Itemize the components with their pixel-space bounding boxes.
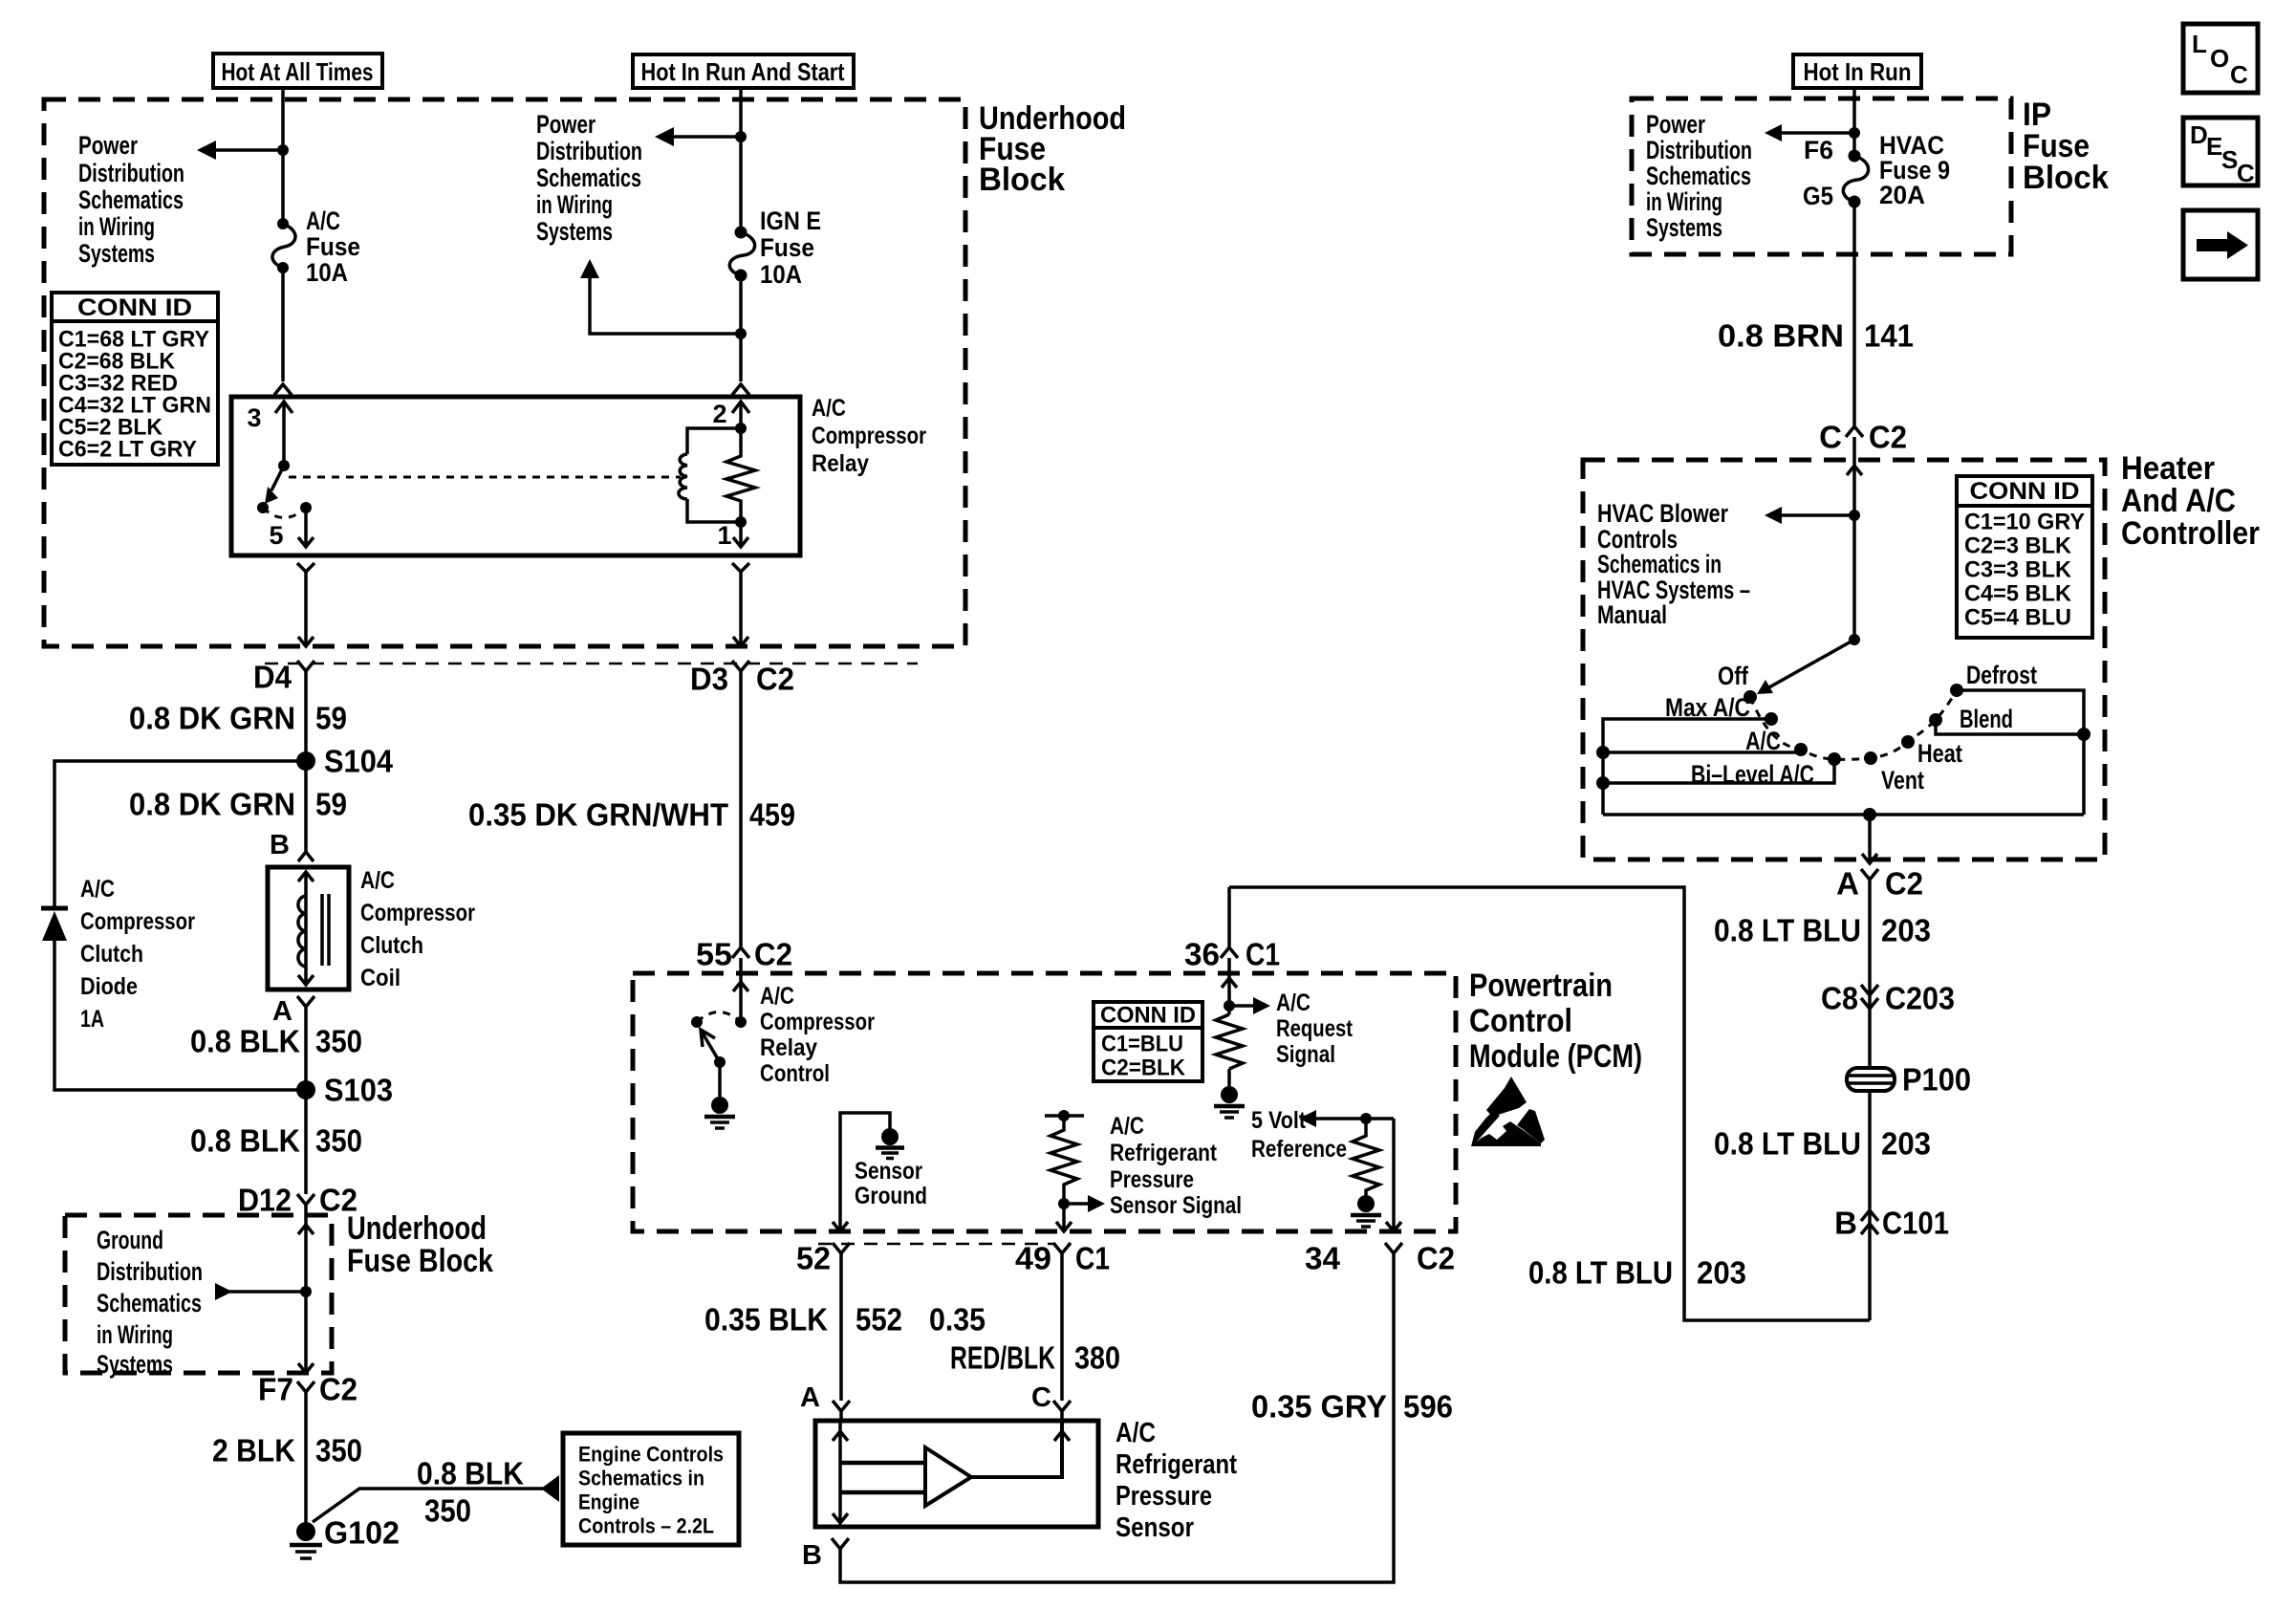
relay box: A/C Compressor Relay xyxy=(231,397,800,555)
svg-text:Systems: Systems xyxy=(1646,213,1722,242)
svg-text:Sensor Signal: Sensor Signal xyxy=(1110,1192,1242,1219)
svg-text:0.8 BRN: 0.8 BRN xyxy=(1718,318,1844,354)
svg-text:C2=BLK: C2=BLK xyxy=(1101,1055,1186,1081)
svg-text:Controls – 2.2L: Controls – 2.2L xyxy=(578,1514,714,1538)
svg-text:Distribution: Distribution xyxy=(1646,136,1752,164)
svg-text:Hot In Run: Hot In Run xyxy=(1804,57,1912,86)
node: bus output junction xyxy=(1863,808,1876,821)
svg-text:L: L xyxy=(2192,30,2207,58)
svg-text:0.35 BLK: 0.35 BLK xyxy=(704,1302,828,1338)
svg-text:A: A xyxy=(800,1382,820,1413)
node: relay switch pivot xyxy=(278,460,290,471)
wire: Bi-Level A/C contact line xyxy=(1603,759,1834,783)
svg-text:A/C: A/C xyxy=(306,207,340,235)
svg-text:Heater: Heater xyxy=(2121,450,2215,487)
svg-text:Distribution: Distribution xyxy=(78,159,184,187)
fuse: IGN E Fuse 10A xyxy=(735,227,747,239)
svg-text:Signal: Signal xyxy=(1276,1041,1335,1068)
node: relay contact (right) xyxy=(300,502,312,513)
svg-text:5 Volt: 5 Volt xyxy=(1251,1107,1307,1134)
svg-text:Manual: Manual xyxy=(1597,600,1667,629)
svg-text:C1: C1 xyxy=(1245,937,1280,972)
wire: A/C contact line xyxy=(1603,751,1801,754)
svg-text:Schematics in: Schematics in xyxy=(578,1467,704,1490)
svg-text:596: 596 xyxy=(1403,1389,1453,1425)
diode: A/C Compressor Clutch Diode 1A xyxy=(41,906,68,911)
table: CONN ID (underhood fuse block) xyxy=(52,293,218,321)
label box: Hot In Run xyxy=(1793,54,1921,88)
wire: feed from Hot In Run xyxy=(1852,88,1856,156)
svg-text:0.8 DK GRN: 0.8 DK GRN xyxy=(129,787,295,822)
svg-text:C3=3 BLK: C3=3 BLK xyxy=(1964,557,2072,583)
wire: 5V output down arrow (34) xyxy=(1392,1119,1396,1231)
component box: A/C Refrigerant Pressure Sensor xyxy=(815,1421,1098,1527)
dashed arc between driver contacts xyxy=(697,1012,741,1023)
clutch coil inductor bumps xyxy=(298,896,306,967)
svg-text:Schematics: Schematics xyxy=(97,1289,202,1317)
svg-text:55: 55 xyxy=(696,937,732,972)
svg-text:B: B xyxy=(802,1540,822,1571)
svg-text:C4=5 BLK: C4=5 BLK xyxy=(1964,581,2072,607)
svg-text:Reference: Reference xyxy=(1251,1136,1347,1163)
wire: arrow to Power Distribution Schematics xyxy=(214,148,283,152)
svg-text:Hot At All Times: Hot At All Times xyxy=(222,57,374,86)
node: splice to power distribution (IGN) xyxy=(735,131,747,142)
svg-text:141: 141 xyxy=(1864,318,1914,354)
svg-text:Power: Power xyxy=(536,110,596,139)
reference box: Engine Controls Schematics xyxy=(563,1433,739,1545)
svg-text:2: 2 xyxy=(712,400,726,428)
svg-text:350: 350 xyxy=(315,1024,362,1059)
svg-text:Pressure: Pressure xyxy=(1116,1481,1212,1512)
svg-text:C2: C2 xyxy=(319,1372,357,1407)
svg-text:0.8 LT BLU: 0.8 LT BLU xyxy=(1714,913,1861,948)
wire: 0.8 LT BLU 203 (A to loop) xyxy=(1868,880,1872,1320)
wire: relay output to fuse block edge (x775) xyxy=(739,572,743,646)
svg-text:Engine: Engine xyxy=(578,1490,639,1514)
connector boundary thin dashed line C1 (52-49) xyxy=(818,1243,1053,1246)
svg-text:0.35: 0.35 xyxy=(929,1302,986,1338)
svg-text:C203: C203 xyxy=(1885,981,1955,1016)
dashed box: Powertrain Control Module (PCM) xyxy=(633,973,1456,1231)
node: driver pivot xyxy=(714,1056,726,1068)
svg-text:A/C: A/C xyxy=(80,876,115,903)
svg-text:Control: Control xyxy=(1469,1003,1572,1039)
connector chevron: IGN fuse output into relay (x775) xyxy=(732,384,749,395)
dashed actuation link to relay coil xyxy=(289,476,681,479)
svg-text:Compressor: Compressor xyxy=(360,900,475,926)
svg-text:20A: 20A xyxy=(1879,181,1925,209)
svg-text:E: E xyxy=(2206,132,2222,161)
svg-text:10A: 10A xyxy=(760,260,802,289)
connector chevron below relay (x775) xyxy=(732,563,749,572)
svg-text:C2=3 BLK: C2=3 BLK xyxy=(1964,533,2072,559)
svg-text:Refrigerant: Refrigerant xyxy=(1116,1449,1237,1480)
wire: relay output to fuse block edge (x320) xyxy=(304,572,308,646)
switch arm: relay control driver xyxy=(702,1032,720,1062)
wire: sensor signal down arrow xyxy=(1062,1204,1066,1231)
wire: sensor ground hook xyxy=(840,1113,890,1231)
svg-text:A/C: A/C xyxy=(360,867,395,894)
svg-text:Compressor: Compressor xyxy=(80,908,195,935)
svg-text:A/C: A/C xyxy=(1276,990,1310,1016)
wire: arrow to Ground Distribution Schematics xyxy=(227,1290,306,1294)
svg-text:D4: D4 xyxy=(253,660,292,695)
svg-text:5: 5 xyxy=(269,521,283,550)
svg-text:Refrigerant: Refrigerant xyxy=(1110,1140,1218,1166)
rotary contact: A/C xyxy=(1794,743,1808,756)
wire: A/C request signal (36) xyxy=(1227,887,1231,946)
svg-text:Distribution: Distribution xyxy=(97,1257,203,1286)
svg-text:Relay: Relay xyxy=(760,1034,817,1061)
node: 5V junction xyxy=(1360,1113,1372,1124)
svg-text:Systems: Systems xyxy=(78,239,155,268)
inline splice P100 xyxy=(1847,1068,1895,1091)
svg-text:Ground: Ground xyxy=(855,1183,927,1209)
dashed box: Underhood Fuse Block xyxy=(44,99,965,646)
svg-text:A: A xyxy=(1836,866,1859,902)
switch arm: mode selector wiper xyxy=(1767,640,1854,688)
wire: 0.8 BRN 141 xyxy=(1852,202,1856,425)
svg-text:RED/BLK: RED/BLK xyxy=(950,1340,1055,1376)
wire: into heater controller xyxy=(1852,437,1856,640)
ground: sensor ground symbol xyxy=(881,1128,899,1145)
pin D4 connector chevron xyxy=(297,661,314,671)
svg-text:552: 552 xyxy=(856,1302,902,1338)
dashed arc between relay contacts xyxy=(263,508,306,518)
svg-text:Compressor: Compressor xyxy=(760,1009,875,1035)
svg-text:Blend: Blend xyxy=(1960,705,2013,733)
pin D3 connector chevron xyxy=(732,661,749,671)
clutch coil core bars xyxy=(320,894,324,966)
svg-text:0.8 LT BLU: 0.8 LT BLU xyxy=(1528,1255,1673,1291)
svg-text:Defrost: Defrost xyxy=(1966,661,2037,689)
wire: bottom bus of rotary switch xyxy=(1603,813,2084,816)
svg-text:Controller: Controller xyxy=(2121,515,2260,552)
svg-text:S104: S104 xyxy=(324,744,394,779)
svg-text:203: 203 xyxy=(1697,1255,1746,1291)
svg-text:Module (PCM): Module (PCM) xyxy=(1469,1038,1642,1075)
wire to driver ground xyxy=(718,1062,722,1097)
svg-text:Engine Controls: Engine Controls xyxy=(578,1443,724,1467)
wire: 0.35 DK GRN/WHT 459 (D3 to 55) xyxy=(739,671,743,946)
svg-text:HVAC Blower: HVAC Blower xyxy=(1597,499,1728,528)
svg-text:59: 59 xyxy=(315,787,347,822)
arrow: sensor signal to PCM xyxy=(1064,1202,1090,1206)
sensor internal: supply line with arrows xyxy=(838,1421,842,1523)
op-amp: sensor amplifier triangle xyxy=(925,1447,971,1506)
wire: 0.35 GRY 596 (B to 34) xyxy=(840,1253,1394,1582)
svg-text:Block: Block xyxy=(2023,160,2109,196)
node: sensor signal junction xyxy=(1058,1198,1070,1209)
resistor: A/C refrigerant pressure sensor pull-up xyxy=(1045,1114,1084,1118)
svg-text:Schematics in: Schematics in xyxy=(1597,550,1722,578)
svg-text:203: 203 xyxy=(1881,913,1931,948)
wire: branch with up arrow xyxy=(590,276,741,334)
svg-text:Powertrain: Powertrain xyxy=(1469,968,1613,1004)
svg-text:Ground: Ground xyxy=(97,1226,163,1254)
wire: Max A/C contact line xyxy=(1603,719,1771,815)
ground G102 xyxy=(296,1522,315,1541)
svg-text:Vent: Vent xyxy=(1881,766,1924,794)
svg-text:CONN ID: CONN ID xyxy=(1970,478,2080,505)
svg-text:1: 1 xyxy=(717,521,731,550)
dashed box: Heater And A/C Controller xyxy=(1583,460,2105,859)
svg-text:Schematics: Schematics xyxy=(1646,162,1751,190)
wire: arrow to Power Distribution Schematics (IP) xyxy=(1780,131,1854,135)
wire: 0.8 BLK 350 branch to engine controls xyxy=(313,1489,545,1522)
svg-text:B: B xyxy=(270,830,290,860)
svg-text:Compressor: Compressor xyxy=(812,423,926,449)
wire: 2 BLK 350 to G102 xyxy=(304,1392,308,1524)
svg-text:C: C xyxy=(2237,159,2255,187)
icon box: DESC xyxy=(2183,118,2258,185)
svg-text:0.8 BLK: 0.8 BLK xyxy=(190,1123,300,1159)
wire: arrow to Power Distribution Schematics (IGN) xyxy=(672,135,741,139)
svg-text:in Wiring: in Wiring xyxy=(78,212,155,241)
node: splice to HVAC blower arrow xyxy=(1849,510,1860,521)
wire: diode branch from S104 xyxy=(54,761,306,906)
svg-text:C: C xyxy=(1031,1382,1051,1413)
wire: ignition feed from Hot In Run And Start xyxy=(739,88,743,231)
node: PCM driver contact (right) xyxy=(735,1016,747,1028)
svg-text:A/C: A/C xyxy=(760,983,794,1010)
svg-text:Distribution: Distribution xyxy=(536,137,642,165)
node: splice to power distribution feed xyxy=(277,144,289,156)
dashed arc: rotary switch positions xyxy=(1750,690,1957,759)
rotary contact: Max A/C xyxy=(1765,712,1778,726)
svg-text:S: S xyxy=(2221,145,2238,174)
svg-text:36: 36 xyxy=(1184,937,1220,972)
svg-text:Pressure: Pressure xyxy=(1110,1166,1194,1193)
svg-text:0.35 DK GRN/WHT: 0.35 DK GRN/WHT xyxy=(468,797,728,833)
splice S103 xyxy=(296,1080,315,1099)
node: splice for up-arrow branch xyxy=(735,328,747,339)
svg-text:Power: Power xyxy=(1646,110,1705,139)
connector boundary thin dashed line C2 (D4-D3) xyxy=(265,663,918,665)
svg-text:350: 350 xyxy=(315,1123,362,1159)
svg-text:C101: C101 xyxy=(1882,1206,1949,1241)
splice S104 xyxy=(296,751,315,771)
svg-text:0.8 LT BLU: 0.8 LT BLU xyxy=(1714,1126,1861,1162)
svg-text:Schematics: Schematics xyxy=(536,163,641,192)
resistor: request signal pull-down xyxy=(1216,1014,1243,1069)
wire: PCM loop 36 to right column xyxy=(1229,887,1870,1320)
svg-text:10A: 10A xyxy=(306,258,348,287)
connector chevron below relay (x320) xyxy=(297,563,314,572)
wire: request signal into PCM xyxy=(1227,958,1231,1014)
svg-text:Fuse Block: Fuse Block xyxy=(347,1243,493,1279)
svg-text:F7: F7 xyxy=(258,1372,293,1407)
rotary contact: mid position xyxy=(1864,751,1877,765)
svg-text:C5=4 BLU: C5=4 BLU xyxy=(1964,605,2071,631)
svg-text:C6=2 LT GRY: C6=2 LT GRY xyxy=(58,437,197,463)
svg-text:in Wiring: in Wiring xyxy=(97,1320,173,1349)
wire: 5 volt reference xyxy=(1314,1117,1394,1120)
svg-text:C2: C2 xyxy=(1417,1241,1455,1276)
wire: A/C compressor relay control into PCM xyxy=(739,958,743,1022)
ground: relay control driver xyxy=(711,1097,728,1114)
fuse: A/C Fuse 10A xyxy=(277,218,289,229)
svg-text:350: 350 xyxy=(315,1433,362,1469)
arrow: request signal to PCM logic xyxy=(1229,1004,1255,1008)
svg-text:Heat: Heat xyxy=(1917,739,1962,768)
clutch coil internal wire with arrows xyxy=(304,872,308,985)
svg-text:C2: C2 xyxy=(1869,420,1907,455)
svg-text:1A: 1A xyxy=(80,1006,104,1033)
svg-text:Fuse: Fuse xyxy=(760,233,814,262)
node: relay contact (left) xyxy=(257,502,269,513)
svg-text:34: 34 xyxy=(1305,1241,1341,1276)
svg-text:D12: D12 xyxy=(238,1183,292,1218)
svg-text:49: 49 xyxy=(1015,1241,1051,1276)
icon box: LOC xyxy=(2183,24,2258,93)
svg-text:Systems: Systems xyxy=(536,217,613,246)
svg-text:Clutch: Clutch xyxy=(360,932,423,959)
svg-text:C2: C2 xyxy=(756,662,794,697)
wire: arrow to HVAC Blower Controls xyxy=(1780,513,1854,517)
svg-text:Sensor: Sensor xyxy=(855,1158,922,1185)
svg-text:C2: C2 xyxy=(1885,866,1923,902)
label box: Hot At All Times xyxy=(213,54,382,88)
wire: 0.8 DK GRN 59 (D4 to coil) xyxy=(304,671,308,852)
svg-text:Block: Block xyxy=(979,162,1065,198)
icon box: forward arrow xyxy=(2183,210,2258,279)
wire: 0.8 BLK 350 (A to D12) xyxy=(304,1007,308,1194)
svg-text:52: 52 xyxy=(796,1241,831,1276)
wire: Defrost contact line xyxy=(1957,690,2084,734)
node: rotary switch feed xyxy=(1849,634,1860,645)
svg-text:G102: G102 xyxy=(324,1515,400,1551)
svg-text:G5: G5 xyxy=(1803,182,1833,210)
svg-text:Fuse: Fuse xyxy=(306,232,360,261)
svg-text:Control: Control xyxy=(760,1060,830,1087)
wire: 0.35 BLK 552 (52 to A) xyxy=(839,1253,843,1401)
svg-text:Underhood: Underhood xyxy=(347,1210,487,1247)
svg-text:A/C: A/C xyxy=(1116,1418,1156,1448)
rotary contact: Off xyxy=(1744,690,1757,704)
table: CONN ID (PCM) xyxy=(1094,1002,1202,1028)
node: PCM driver contact (left) xyxy=(691,1016,703,1028)
svg-text:380: 380 xyxy=(1074,1340,1120,1376)
ground: request signal xyxy=(1221,1086,1238,1103)
component box: A/C Compressor Clutch Coil xyxy=(268,867,349,990)
svg-text:C2: C2 xyxy=(754,937,792,972)
svg-text:Off: Off xyxy=(1718,662,1749,690)
svg-text:D: D xyxy=(2190,120,2208,149)
svg-text:350: 350 xyxy=(424,1493,471,1529)
svg-text:Systems: Systems xyxy=(97,1350,173,1379)
sensor internal: stubs to amplifier xyxy=(840,1461,925,1466)
svg-text:2 BLK: 2 BLK xyxy=(212,1433,295,1469)
rotary contact: Blend xyxy=(1929,713,1942,727)
svg-text:F6: F6 xyxy=(1804,136,1833,164)
svg-text:Relay: Relay xyxy=(812,450,869,477)
wire: 0.35 RED/BLK 380 (49 to C) xyxy=(1060,1253,1064,1401)
svg-text:3: 3 xyxy=(247,403,261,432)
svg-text:A: A xyxy=(272,996,292,1027)
svg-text:in Wiring: in Wiring xyxy=(1646,187,1722,216)
relay coil branch (inductor) xyxy=(687,428,741,454)
wire: output down through heater box edge xyxy=(1868,815,1872,863)
svg-text:C1=10 GRY: C1=10 GRY xyxy=(1964,510,2085,535)
ground: 5V reference xyxy=(1357,1195,1375,1212)
resistor: 5V reference pull xyxy=(1353,1119,1379,1195)
svg-text:in Wiring: in Wiring xyxy=(536,190,613,219)
svg-text:59: 59 xyxy=(315,701,347,736)
svg-text:A/C: A/C xyxy=(1110,1113,1144,1140)
label box: Hot In Run And Start xyxy=(633,54,854,88)
relay coil resistor (zigzag) xyxy=(726,428,755,522)
svg-text:CONN ID: CONN ID xyxy=(77,294,192,321)
svg-text:Bi–Level A/C: Bi–Level A/C xyxy=(1691,760,1814,789)
svg-text:P100: P100 xyxy=(1902,1062,1971,1098)
sensor internal: output to C xyxy=(971,1421,1062,1477)
svg-text:C8: C8 xyxy=(1821,981,1858,1016)
svg-text:Sensor: Sensor xyxy=(1116,1512,1194,1543)
svg-text:0.8 BLK: 0.8 BLK xyxy=(417,1456,524,1491)
wire: battery feed from Hot At All Times xyxy=(281,88,285,224)
node: splice to power distribution (IP) xyxy=(1849,127,1860,139)
svg-text:0.8 DK GRN: 0.8 DK GRN xyxy=(129,701,295,736)
svg-text:0.35 GRY: 0.35 GRY xyxy=(1251,1389,1387,1425)
svg-text:0.8 BLK: 0.8 BLK xyxy=(190,1024,300,1059)
rotary contact: Defrost xyxy=(1950,684,1963,697)
svg-text:O: O xyxy=(2210,44,2229,73)
dashed box: IP Fuse Block xyxy=(1632,98,2011,254)
svg-text:CONN ID: CONN ID xyxy=(1100,1003,1196,1029)
svg-text:IGN E: IGN E xyxy=(760,207,821,235)
svg-text:Hot In Run And Start: Hot In Run And Start xyxy=(641,57,845,86)
wire: through ground distribution box xyxy=(304,1205,308,1373)
connector chevron: fuse output into relay (x296) xyxy=(274,384,292,395)
svg-text:S103: S103 xyxy=(324,1073,393,1108)
table: CONN ID (heater) xyxy=(1957,476,2092,506)
dashed box: Ground Distribution (underhood fuse block) xyxy=(65,1215,332,1373)
switch arm: relay movable contact xyxy=(271,466,284,490)
svg-text:A/C: A/C xyxy=(812,395,846,422)
node: request signal junction xyxy=(1224,1000,1235,1012)
node: coil bottom junction xyxy=(735,516,747,528)
svg-text:Coil: Coil xyxy=(360,965,401,991)
svg-text:459: 459 xyxy=(749,797,795,833)
svg-text:C: C xyxy=(2230,60,2248,89)
svg-text:Request: Request xyxy=(1276,1015,1354,1042)
svg-text:And A/C: And A/C xyxy=(2121,483,2236,519)
svg-text:Power: Power xyxy=(78,131,138,160)
node: splice to ground distribution arrow xyxy=(300,1286,312,1297)
wire: Blend contact line xyxy=(1936,720,2084,734)
svg-text:C1=BLU: C1=BLU xyxy=(1101,1032,1183,1057)
svg-text:203: 203 xyxy=(1881,1126,1931,1162)
fuse: HVAC Fuse 9 20A xyxy=(1849,150,1861,163)
svg-text:Diode: Diode xyxy=(80,973,138,1000)
svg-text:Schematics: Schematics xyxy=(78,185,184,214)
rotary contact: Vent xyxy=(1828,752,1841,766)
svg-text:B: B xyxy=(1834,1206,1857,1241)
svg-text:C: C xyxy=(1819,420,1842,455)
svg-text:C1: C1 xyxy=(1075,1241,1110,1276)
node: coil top junction xyxy=(735,423,747,434)
arrow into bottom edge of ground box xyxy=(298,1363,314,1373)
ESD symbol xyxy=(1486,1077,1527,1117)
svg-text:D3: D3 xyxy=(690,662,728,697)
svg-text:Clutch: Clutch xyxy=(80,941,143,968)
rotary contact: Heat xyxy=(1901,735,1915,749)
